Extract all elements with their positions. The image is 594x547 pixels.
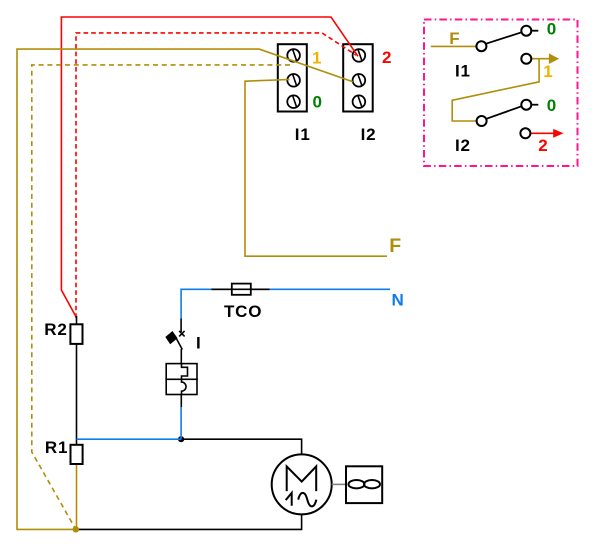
svg-text:R1: R1 bbox=[45, 438, 68, 457]
svg-text:0: 0 bbox=[313, 93, 323, 112]
svg-text:1: 1 bbox=[543, 62, 553, 81]
svg-text:I1: I1 bbox=[295, 125, 311, 144]
svg-text:I2: I2 bbox=[361, 125, 377, 144]
svg-text:0: 0 bbox=[547, 96, 557, 115]
svg-text:TCO: TCO bbox=[224, 302, 262, 321]
svg-text:I: I bbox=[196, 334, 202, 353]
svg-text:1: 1 bbox=[312, 49, 322, 68]
svg-text:N: N bbox=[392, 291, 405, 310]
svg-text:2: 2 bbox=[538, 136, 548, 155]
svg-text:I1: I1 bbox=[455, 61, 471, 80]
svg-text:R2: R2 bbox=[44, 320, 67, 339]
svg-text:2: 2 bbox=[382, 48, 392, 67]
svg-text:I2: I2 bbox=[455, 136, 471, 155]
svg-text:0: 0 bbox=[547, 19, 557, 38]
svg-text:F: F bbox=[389, 235, 402, 257]
svg-text:F: F bbox=[449, 29, 460, 48]
